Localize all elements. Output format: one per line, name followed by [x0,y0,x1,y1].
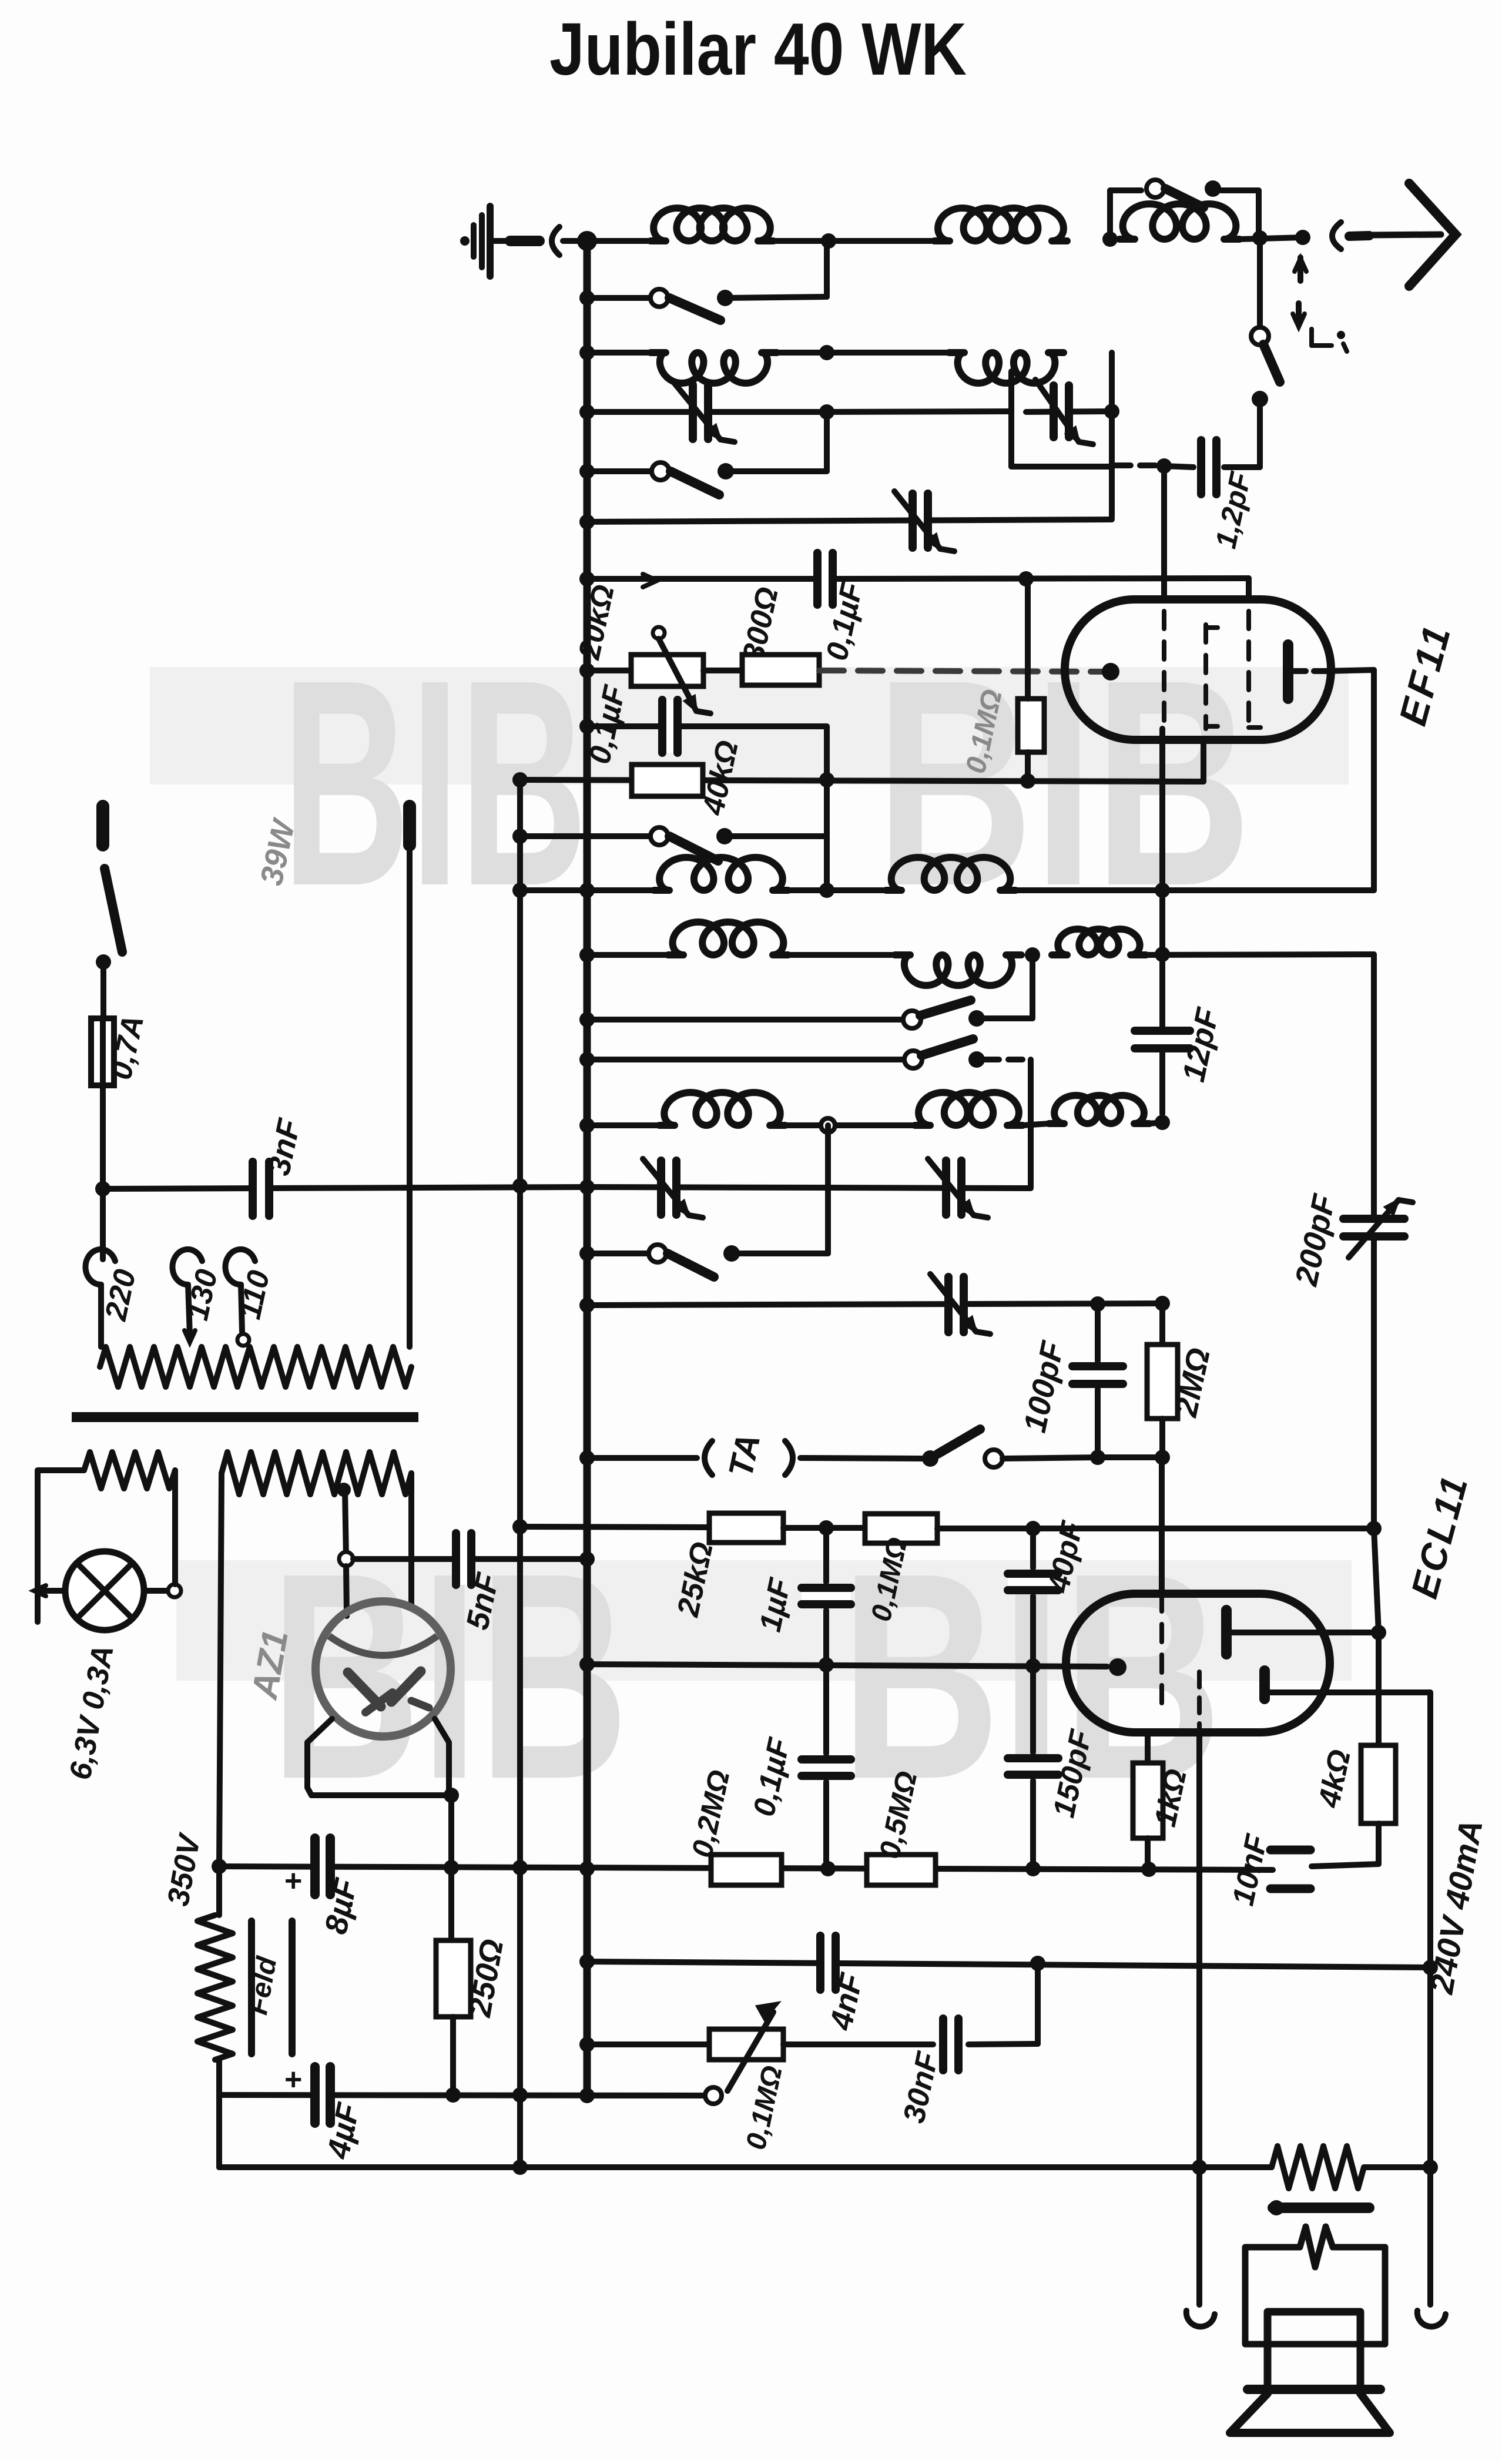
vertical VC mid [1159,891,1165,1023]
node [579,947,595,963]
resistor 250 [436,1868,471,2094]
node [512,829,528,844]
node [820,1861,836,1876]
coupling arrow [1293,303,1305,327]
wire row [520,780,1203,782]
node [579,404,595,420]
label AZ1 [244,1627,296,1703]
node [579,1118,595,1133]
wire [1022,1124,1049,1125]
label 25kOhm [671,1539,720,1620]
node [819,404,834,420]
wire [172,1551,178,1584]
ECL11 g2 wire [1196,1732,1202,2167]
node [445,2087,461,2103]
coupling arrow [1295,257,1306,281]
wire row [103,1187,587,1189]
node [1025,1658,1041,1674]
capacitor 12pF [1135,1030,1190,1050]
lamp arrow [34,1585,46,1596]
node [512,1178,528,1194]
TA jack [705,1441,793,1475]
wire [785,1122,915,1128]
ECL11 grid pin [1109,1658,1126,1676]
label EF11 [1390,618,1459,730]
capacitor 150pF [1008,1666,1058,1868]
wire row [587,1664,1107,1667]
tap plug [339,1552,353,1566]
label 30nF [897,2049,945,2126]
node [95,1181,110,1196]
node [212,1859,227,1874]
label 0,1uF 3 [747,1735,797,1819]
wire [725,241,827,298]
wire AZ1 anode left [346,1566,347,1616]
vertical bus2 [517,780,523,2167]
resistor 0,1M 2 [865,1514,937,1543]
tube EF11 [1065,599,1331,740]
coil L6 [654,857,788,890]
wire [1312,1823,1379,1866]
AZ1 top arc [329,1636,437,1655]
wire rail [836,578,1249,579]
wire [1257,399,1263,467]
wire row [520,833,652,839]
lamp terminal [168,1584,181,1597]
label 130 [180,1266,224,1323]
speaker plug right [1417,2167,1446,2326]
wire row [219,2095,705,2096]
label 4kOhm [1312,1746,1357,1811]
node [579,883,595,898]
capacitor 0,1uF 3 [802,1665,851,1868]
wire [788,887,1374,893]
node [512,2087,528,2103]
wire dash link [1115,462,1161,468]
label 40kOhm [696,737,745,819]
label 1kOhm [1148,1766,1193,1829]
tube AZ1 [316,1601,451,1736]
trimmer C4 [643,1159,703,1218]
potentiometer 0,1M [709,2003,783,2091]
label 0,7A [104,1013,151,1083]
switch S5 [903,1000,985,1028]
label 0,1MOhm 2 [866,1535,914,1624]
node [819,772,834,787]
coil L11 [659,1092,785,1125]
wire [563,238,651,244]
switch S1b [1251,327,1280,407]
label 200pF [1289,1191,1343,1289]
switch S8 [922,1429,1003,1467]
node [579,514,595,529]
wire [788,952,895,958]
ECL11 pentode anode [1265,1671,1430,1699]
wire [1374,1238,1379,1632]
antenna coupling hook [552,227,559,255]
switch S7 [649,1245,740,1277]
wire box [1011,353,1112,518]
label 150pF [1047,1727,1098,1821]
wire row [587,2093,705,2098]
tap hook 110 [225,1249,255,1346]
node [1155,1450,1170,1465]
label 39W [254,815,303,889]
trimmer 200pF [1343,1200,1413,1258]
wire [219,1473,222,1866]
node [579,1551,595,1567]
hum resistor [1272,2146,1364,2188]
coil L10 [1052,929,1146,955]
node [1018,571,1034,586]
node [579,571,595,586]
label 1uF [753,1575,798,1635]
ECL11 triode anode [1226,1610,1379,1654]
wire [587,668,631,673]
vertical [517,780,523,1186]
wire row [587,295,651,301]
node [1295,230,1310,245]
wire row [520,1527,709,1527]
node [1156,458,1172,474]
EF11 grid pin [1102,663,1119,680]
wire row [587,468,652,474]
node [1020,773,1035,789]
node [579,290,595,306]
field coil [197,1866,233,2167]
capacitor 10nF [1270,1850,1310,1889]
resistor 0,2M [711,1855,782,1885]
wire [726,412,827,471]
capacitor 8uF [284,1838,331,1898]
EF11 cathode dash [1206,625,1218,729]
trimmer C3 [894,491,954,551]
label 100pF [1017,1337,1071,1436]
speaker bar [1248,2385,1380,2394]
coil L1 [651,208,773,241]
tap hook 130 [172,1249,202,1342]
wire row [219,1866,1273,1870]
wire [783,2041,933,2047]
ECL11 dash2 [1197,1672,1202,1732]
coil L5 [949,353,1064,383]
label 0,5MOhm [873,1768,923,1862]
AZ1 lead right [435,1719,449,1795]
capacitor 4uF [284,2063,331,2123]
node [1104,404,1119,419]
wire [1159,1457,1165,1594]
node [512,1519,528,1534]
wire [1149,1122,1162,1124]
label 4nF [823,1969,870,2033]
node [512,883,528,898]
tap hook 220 [85,1249,115,1347]
node [512,1860,528,1875]
potentiometer 20k [631,627,710,713]
wire row [587,2041,709,2047]
switch S6 [904,1039,985,1068]
wire [1257,241,1263,329]
vertical [824,726,830,891]
switch S2 [651,289,733,320]
capacitor 12pF antenna [1164,440,1260,494]
wire [587,350,651,356]
wire [777,350,949,356]
ECL11 grid dash [1159,1594,1164,1709]
wire [703,668,742,673]
label 110 [233,1268,276,1322]
wire row [587,1455,697,1461]
wire [1110,190,1141,239]
open node [821,1118,835,1132]
wire row [587,1057,905,1062]
coil L12 [915,1092,1022,1125]
coil L2 [934,208,1067,241]
wire row [587,409,827,415]
wire [1201,740,1206,782]
resistor 2M [1147,1303,1178,1457]
wire [773,238,934,244]
wire rail [587,574,814,587]
node [1423,2160,1438,2175]
capacitor 100pF [1072,1304,1123,1457]
node [579,345,595,360]
wire [587,723,827,729]
node [1192,2160,1207,2175]
node [444,1788,459,1803]
wire [725,833,827,839]
ground [460,206,539,276]
wire [1159,1023,1165,1114]
coil L7 [886,857,1015,890]
resistor 1k [1133,1732,1163,1868]
antenna arrow [1369,183,1456,286]
trimmer C1 [673,382,735,442]
node [579,1954,595,1969]
switch S1a [1146,180,1221,207]
resistor 25k [709,1513,783,1543]
wire AZ1 anode right [408,1473,414,1608]
resistor 4k [1361,1745,1396,1823]
node [1155,947,1170,962]
label 10nF [1226,1831,1274,1909]
node [819,1657,834,1672]
filament winding [84,1452,175,1489]
speaker cone [1230,2393,1390,2433]
EF11 grid1 dash [1162,611,1166,729]
node [579,1450,595,1466]
node [1025,1861,1041,1876]
switch S3 [652,462,734,495]
coil L13 [1049,1095,1149,1124]
wire [977,955,1032,1018]
node [1366,1521,1382,1536]
vertical bus [584,241,591,2096]
node [819,1520,834,1536]
wire [100,1085,106,1189]
speaker magnet [1268,2312,1360,2385]
wire [937,1526,1374,1531]
node [1423,1960,1438,1975]
node [579,663,595,678]
dial lamp [65,1551,144,1630]
label 20kOhm [572,582,621,663]
label 0,2MOhm [685,1767,736,1860]
wire row [587,1251,649,1256]
wire row [587,1303,1162,1305]
capacitor 4nF [819,1936,837,1990]
wire [448,1795,454,1866]
wire primary right [407,845,413,1347]
label 300 Ohm [736,584,785,665]
wire [800,1458,922,1459]
plug [1332,222,1369,249]
capacitor 40pF [1008,1528,1058,1666]
mains switch [96,869,122,970]
resistor 300 [742,655,819,685]
node [579,1012,595,1027]
label 4uF [320,2099,367,2162]
node [1025,947,1040,963]
wire row [587,952,668,958]
transformer primary [100,1347,411,1387]
node [1025,1521,1041,1536]
node [1030,1956,1045,1971]
HV tap [337,1483,351,1559]
switch S4 [651,827,733,861]
capacitor 1uF [802,1528,851,1665]
label 0,1MOhm pot [740,2063,789,2153]
wire dashed [985,1057,1027,1062]
node [579,1861,595,1876]
wire row [587,1187,1031,1188]
wire [100,962,106,1018]
label 240V 40mA [1423,1817,1490,1997]
wire row [587,519,1112,522]
node [1252,230,1268,246]
label 3nF [261,1115,307,1178]
node [579,1052,595,1067]
wire [1221,190,1259,237]
wire [38,1588,167,1594]
label 220 [99,1266,143,1324]
wire [172,1470,178,1551]
capacitor 30nF [942,2019,960,2070]
node [1155,1296,1170,1311]
trimmer C5 [928,1159,988,1218]
node [819,883,834,898]
wire row [587,1962,1430,1967]
label ECL11 [1403,1470,1476,1603]
capacitor 3nF [252,1162,270,1216]
wire [968,1963,1038,2044]
resistor 0,1M [1018,579,1044,781]
node [579,719,595,734]
trimmer C6 [930,1274,990,1334]
capacitor 0,1uF 2 [661,700,679,753]
node [444,1860,459,1875]
coil L4 [651,353,777,383]
label 8uF [318,1875,364,1937]
label 0,1MOhm gray [960,687,1008,776]
node [579,2088,595,2103]
wire [1146,954,1374,955]
coil L8 [668,922,788,955]
wire [1376,1632,1382,1745]
HV winding [222,1452,411,1494]
wire [783,1525,865,1531]
label 350V [161,1830,207,1909]
wiper contact [705,2087,722,2104]
node [821,233,836,249]
title Jubilar 40 WK [549,8,967,90]
node [1102,232,1118,247]
wire [1246,578,1252,599]
transformer bar [1269,2200,1369,2215]
node [1155,1115,1170,1130]
wire row [520,887,654,893]
capacitor 0,1uF [816,553,834,605]
node [579,1657,595,1672]
label 12pF [1176,1004,1226,1085]
voice coil loop [1245,2227,1385,2344]
node bus-top [577,231,597,251]
label 2MOhm [1168,1345,1217,1420]
wire [1364,2164,1430,2170]
tube ECL11 [1066,1594,1330,1732]
node [819,345,834,360]
wire row [587,1017,904,1023]
wire [38,1470,84,1622]
node [1090,1450,1105,1465]
label 0,1uF 2 [582,682,632,767]
node [579,464,595,479]
mains terminal 2 [403,806,416,845]
node [579,1246,595,1261]
vertical 200pF branch [1371,954,1377,1218]
node [1155,883,1170,898]
wire [100,1189,106,1259]
vertical stub [825,1125,831,1253]
node [512,772,528,787]
wire [1028,1060,1034,1187]
resistor 0,5M [867,1855,936,1885]
coupling mark i [1312,329,1347,351]
label 0,1uF [820,579,870,663]
node [1371,1625,1386,1640]
AZ1 electrodes [348,1671,429,1712]
coil L9 [895,955,1021,985]
label 6,3V 0,3A [63,1642,120,1782]
EF11 grid3 dash [1249,611,1260,729]
resistor 40k [632,765,703,796]
wire row [587,1122,659,1128]
ground rail [219,2060,1272,2167]
fuse 0,7A [91,1018,114,1085]
wire 5nF row [353,1556,587,1562]
wire grid [819,671,1107,672]
node [1090,1296,1105,1312]
AZ1 lead left [307,1719,451,1795]
wire pentode anode down [1427,1692,1433,2167]
coil L3 [1119,204,1239,239]
transformer core [72,1412,418,1422]
svg-text:+: + [284,1864,302,1898]
wire [827,411,1011,412]
label 5nF [460,1569,506,1632]
wire [1159,729,1165,891]
label 12pF [1209,468,1257,551]
